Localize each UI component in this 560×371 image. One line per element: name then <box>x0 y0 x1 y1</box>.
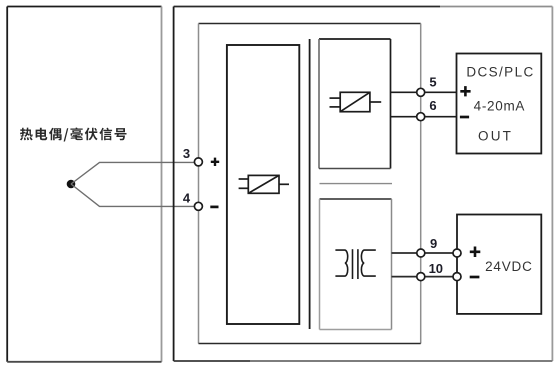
svg-text:4-20mA: 4-20mA <box>474 99 525 114</box>
svg-text:OUT: OUT <box>478 129 513 144</box>
wire output + (module to DCS) <box>391 91 457 93</box>
wire thermocouple + lead to terminal 3 <box>71 162 198 184</box>
barrier divider line <box>309 39 311 329</box>
label 热电偶/毫伏信号 <box>20 128 127 142</box>
terminal 5 <box>417 75 437 97</box>
terminal 6 <box>417 98 437 121</box>
transformer T1 <box>335 249 375 279</box>
wire output - (module to DCS) <box>391 116 457 118</box>
field device box (left enclosure) <box>7 7 161 362</box>
isolation amplifier symbol U1 <box>239 175 289 193</box>
power module box <box>320 199 392 330</box>
svg-text:10: 10 <box>429 261 443 276</box>
svg-text:9: 9 <box>430 236 437 251</box>
svg-text:24VDC: 24VDC <box>485 259 533 274</box>
separator line between modules <box>320 183 393 185</box>
wire supply - (module to 24VDC) <box>392 276 458 278</box>
terminal 3 <box>183 146 219 166</box>
wire thermocouple - lead to terminal 4 <box>71 184 198 206</box>
isolator module outer enclosure <box>174 7 553 362</box>
input isolation column <box>227 45 299 324</box>
svg-text:6: 6 <box>429 98 436 113</box>
terminal 4 <box>183 190 219 210</box>
svg-text:5: 5 <box>429 75 436 90</box>
wire supply + (module to 24VDC) <box>392 252 458 254</box>
DCS/PLC box <box>457 54 542 154</box>
terminal 9 <box>417 236 461 257</box>
inner frame box <box>199 24 421 344</box>
svg-text:3: 3 <box>183 146 190 161</box>
isolation amplifier symbol U2 <box>330 92 382 111</box>
svg-text:DCS/PLC: DCS/PLC <box>466 65 534 80</box>
thermocouple junction <box>67 180 76 189</box>
terminal 10 <box>417 261 461 281</box>
svg-text:4: 4 <box>183 190 191 205</box>
output module box <box>319 39 391 169</box>
24VDC box <box>457 215 541 314</box>
